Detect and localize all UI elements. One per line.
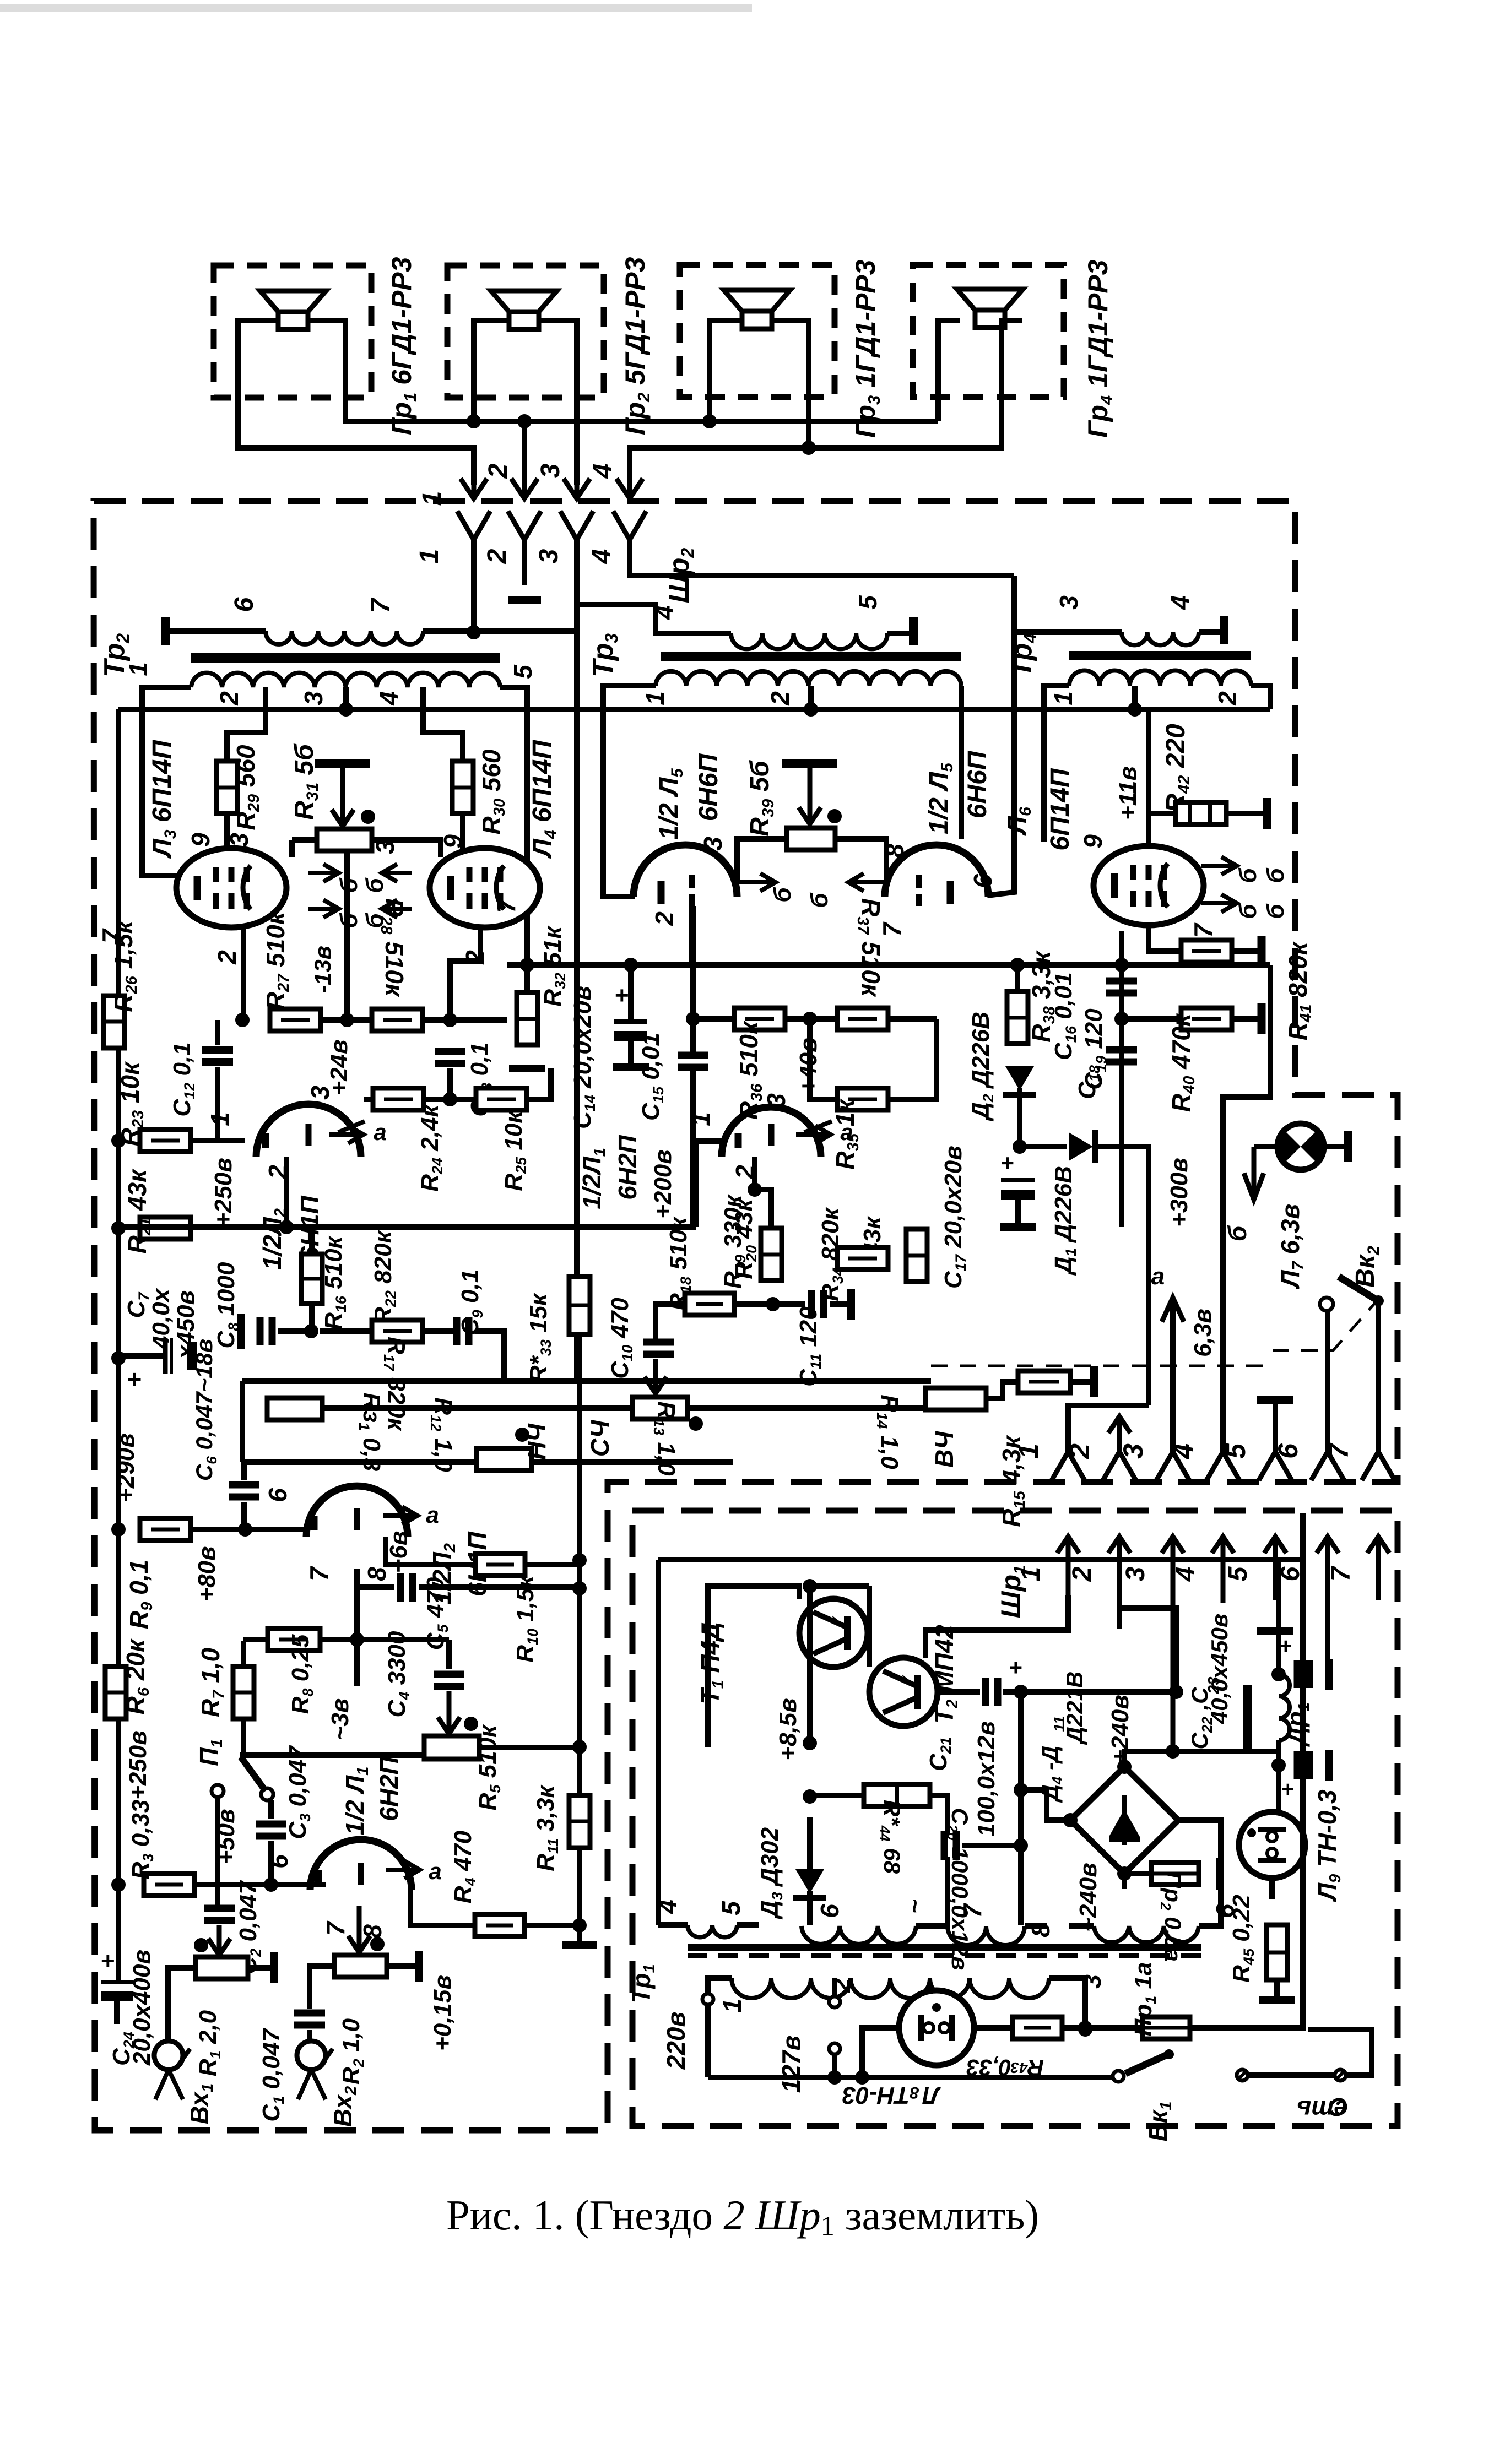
svg-text:+24в: +24в: [326, 1039, 353, 1095]
svg-text:R26 1,5к: R26 1,5к: [109, 920, 140, 1012]
svg-text:4: 4: [587, 549, 616, 565]
svg-text:6: 6: [815, 1904, 844, 1918]
svg-text:R7 1,0: R7 1,0: [196, 1648, 228, 1718]
svg-text:R25 10к: R25 10к: [500, 1110, 529, 1191]
svg-text:2: 2: [215, 691, 243, 706]
svg-text:4: 4: [650, 605, 679, 620]
svg-text:4: 4: [1171, 1567, 1200, 1582]
svg-text:б: б: [1223, 1225, 1252, 1241]
svg-text:R3 0,33: R3 0,33: [127, 1800, 156, 1880]
svg-text:127в: 127в: [777, 2036, 805, 2093]
svg-text:R32 51к: R32 51к: [539, 925, 569, 1007]
svg-text:НЧ: НЧ: [522, 1423, 551, 1460]
svg-text:5: 5: [853, 595, 882, 610]
svg-text:7: 7: [1327, 1565, 1356, 1581]
svg-text:R27 510к: R27 510к: [261, 910, 293, 1010]
svg-text:6: 6: [264, 1854, 293, 1869]
svg-text:5: 5: [717, 1901, 745, 1915]
svg-text:43: 43: [1010, 2059, 1029, 2076]
svg-text:Рис. 1. (Гнездо 2 Шр1 заземли: Рис. 1. (Гнездо 2 Шр1 заземлить): [446, 2191, 1039, 2241]
svg-text:1: 1: [1013, 1443, 1044, 1459]
svg-text:4: 4: [375, 691, 403, 706]
svg-text:40,0х450в: 40,0х450в: [1206, 1614, 1232, 1725]
svg-text:1: 1: [718, 1999, 746, 2013]
svg-text:Д3 Д302: Д3 Д302: [756, 1827, 786, 1920]
svg-text:+: +: [1000, 1150, 1014, 1176]
svg-text:1: 1: [415, 549, 444, 564]
svg-text:R19 330к: R19 330к: [719, 1193, 749, 1288]
svg-text:С4 3300: С4 3300: [383, 1631, 413, 1717]
svg-text:С16 0,01: С16 0,01: [1050, 972, 1079, 1060]
svg-text:6Н6П: 6Н6П: [694, 753, 723, 821]
svg-text:R40 470к: R40 470к: [1167, 1012, 1198, 1112]
svg-text:-13в: -13в: [310, 946, 335, 993]
svg-text:2: 2: [483, 549, 512, 564]
svg-text:R4 470: R4 470: [450, 1830, 479, 1903]
svg-text:2: 2: [1068, 1566, 1097, 1582]
svg-text:С3 0,047: С3 0,047: [284, 1745, 313, 1839]
svg-text:+: +: [127, 1365, 142, 1393]
svg-text:R12 1,0: R12 1,0: [427, 1397, 457, 1472]
svg-text:R31 5б: R31 5б: [290, 743, 322, 820]
svg-text:2: 2: [1213, 691, 1242, 706]
svg-text:б: б: [361, 877, 388, 893]
svg-text:Д1 Д226В: Д1 Д226В: [1050, 1166, 1079, 1276]
svg-text:С15 0,01: С15 0,01: [637, 1033, 667, 1121]
svg-text:6: 6: [263, 1488, 292, 1502]
svg-text:R9 0,1: R9 0,1: [124, 1560, 156, 1629]
svg-text:6Н6П: 6Н6П: [963, 750, 992, 818]
svg-text:Д4 -Д: Д4 -Д: [1037, 1746, 1065, 1803]
svg-text:2: 2: [827, 1978, 856, 1993]
svg-text:R18 510к: R18 510к: [665, 1215, 694, 1310]
svg-text:а: а: [429, 1858, 441, 1884]
svg-text:R41 820к: R41 820к: [1284, 941, 1315, 1040]
svg-text:2: 2: [484, 463, 513, 479]
svg-text:Т1 П4Д: Т1 П4Д: [696, 1622, 727, 1705]
svg-text:а: а: [426, 1502, 439, 1528]
svg-text:а: а: [373, 1119, 386, 1145]
svg-text:+11в: +11в: [1114, 766, 1141, 820]
svg-text:Гр3 1ГД1-РР3: Гр3 1ГД1-РР3: [850, 259, 884, 438]
svg-text:СЧ: СЧ: [586, 1419, 614, 1457]
svg-text:R39 5б: R39 5б: [745, 760, 777, 837]
svg-text:Д221В: Д221В: [1062, 1671, 1087, 1745]
svg-text:Гр1 6ГД1-РР3: Гр1 6ГД1-РР3: [386, 257, 420, 435]
svg-text:100,0х12в: 100,0х12в: [973, 1721, 1000, 1837]
svg-text:1: 1: [205, 1112, 234, 1126]
svg-text:1: 1: [641, 691, 669, 705]
svg-text:9: 9: [186, 833, 215, 847]
svg-text:а: а: [1151, 1263, 1165, 1290]
svg-text:7: 7: [321, 1920, 350, 1936]
svg-text:R22 820к: R22 820к: [370, 1229, 399, 1324]
svg-text:6,3в: 6,3в: [1189, 1309, 1216, 1357]
svg-text:3: 3: [699, 837, 727, 851]
svg-text:б: б: [1235, 867, 1262, 883]
svg-text:R16 510к: R16 510к: [320, 1235, 349, 1329]
svg-text:б: б: [806, 892, 833, 908]
svg-text:220в: 220в: [662, 2012, 690, 2070]
svg-text:+0,15в: +0,15в: [429, 1975, 456, 2051]
svg-text:~: ~: [901, 1899, 928, 1914]
svg-text:+250в: +250в: [210, 1158, 237, 1227]
svg-text:1: 1: [124, 662, 153, 676]
svg-text:6: 6: [230, 597, 259, 612]
svg-text:+: +: [1009, 1654, 1022, 1680]
svg-text:3: 3: [762, 1093, 791, 1108]
svg-text:+8,5в: +8,5в: [775, 1698, 802, 1760]
svg-text:+200в: +200в: [649, 1149, 676, 1219]
svg-text:R24 2,4к: R24 2,4к: [416, 1104, 446, 1192]
svg-text:+: +: [100, 1947, 115, 1974]
svg-text:б: б: [1235, 903, 1262, 919]
svg-text:С11 120: С11 120: [795, 1306, 824, 1387]
svg-text:5: 5: [508, 664, 537, 679]
svg-text:3: 3: [1078, 1974, 1106, 1989]
svg-text:3: 3: [1121, 1566, 1150, 1581]
svg-text:б: б: [1262, 903, 1289, 919]
svg-text:R42 220: R42 220: [1161, 724, 1193, 813]
svg-text:С10 470: С10 470: [607, 1298, 636, 1379]
svg-text:4: 4: [588, 464, 618, 479]
svg-text:R28 510к: R28 510к: [377, 898, 409, 998]
svg-text:R6 20к: R6 20к: [121, 1638, 153, 1714]
svg-text:2: 2: [766, 691, 794, 706]
svg-text:1/2 Л5: 1/2 Л5: [924, 762, 956, 834]
svg-text:R35 1к: R35 1к: [831, 1098, 862, 1170]
svg-text:3: 3: [1118, 1443, 1149, 1459]
svg-text:7: 7: [366, 597, 396, 613]
svg-text:Л3 6П14П: Л3 6П14П: [148, 739, 180, 859]
svg-text:~240в: ~240в: [1075, 1863, 1102, 1932]
svg-text:б: б: [769, 887, 796, 903]
svg-text:+80в: +80в: [193, 1546, 220, 1602]
svg-text:Л: Л: [922, 2082, 941, 2109]
svg-text:R11 3,3к: R11 3,3к: [532, 1784, 561, 1871]
svg-text:+290в: +290в: [112, 1433, 139, 1502]
svg-text:+300в: +300в: [1166, 1158, 1193, 1227]
svg-text:R13 1,0: R13 1,0: [651, 1401, 680, 1476]
svg-text:~3в: ~3в: [327, 1698, 354, 1741]
svg-text:4: 4: [1166, 595, 1194, 610]
svg-text:R21 43к: R21 43к: [123, 1168, 154, 1253]
svg-text:3: 3: [534, 549, 564, 563]
svg-text:R8 0,25: R8 0,25: [287, 1634, 316, 1714]
svg-text:ВЧ: ВЧ: [930, 1431, 959, 1468]
svg-text:6Н2П: 6Н2П: [375, 1756, 403, 1821]
svg-text:1/2Л1: 1/2Л1: [577, 1148, 609, 1209]
svg-text:R37 510к: R37 510к: [854, 898, 885, 998]
svg-text:Д2 Д226В: Д2 Д226В: [967, 1012, 997, 1122]
svg-text:2: 2: [650, 911, 679, 926]
svg-text:7: 7: [958, 1903, 987, 1918]
svg-text:ТН-03: ТН-03: [842, 2082, 910, 2109]
svg-text:Т2 МП42: Т2 МП42: [930, 1625, 961, 1724]
svg-text:20,0х400в: 20,0х400в: [128, 1950, 155, 2066]
svg-text:С12 0,1: С12 0,1: [169, 1042, 198, 1116]
svg-text:R23 10к: R23 10к: [116, 1061, 147, 1146]
svg-text:Пр2 0,5а: Пр2 0,5а: [1157, 1871, 1186, 1962]
svg-text:Л9 ТН-0,3: Л9 ТН-0,3: [1313, 1789, 1344, 1902]
svg-text:4: 4: [653, 1899, 682, 1914]
svg-text:+: +: [1281, 1777, 1293, 1801]
svg-text:3: 3: [299, 691, 328, 705]
svg-text:R*33 15к: R*33 15к: [525, 1292, 554, 1383]
svg-text:8: 8: [910, 2083, 919, 2102]
svg-text:R45 0,22: R45 0,22: [1228, 1895, 1257, 1983]
svg-text:9: 9: [1079, 834, 1107, 849]
svg-text:+: +: [614, 982, 629, 1009]
svg-text:С1 0,047: С1 0,047: [258, 2027, 287, 2122]
svg-text:+: +: [1279, 1634, 1291, 1658]
svg-text:С19 120: С19 120: [1080, 1008, 1109, 1090]
svg-text:R29 560: R29 560: [231, 745, 263, 830]
svg-text:8: 8: [1026, 1923, 1055, 1937]
svg-text:Rз1 0,3: Rз1 0,3: [356, 1393, 385, 1472]
svg-text:7: 7: [492, 898, 521, 913]
svg-text:6П14П: 6П14П: [1046, 768, 1075, 851]
svg-text:Гр4 1ГД1-РР3: Гр4 1ГД1-РР3: [1082, 259, 1116, 438]
svg-text:R14 1,0: R14 1,0: [874, 1394, 903, 1469]
svg-text:С9 0,1: С9 0,1: [457, 1269, 486, 1336]
svg-text:2: 2: [213, 950, 241, 965]
svg-text:3: 3: [1054, 595, 1083, 610]
svg-text:1: 1: [1049, 691, 1078, 705]
svg-text:3: 3: [536, 463, 565, 478]
svg-text:б: б: [1262, 867, 1289, 883]
svg-text:Л4 6П14П: Л4 6П14П: [528, 739, 560, 859]
svg-text:1: 1: [686, 1112, 715, 1126]
svg-text:7: 7: [1189, 922, 1217, 938]
svg-text:1/2 Л5: 1/2 Л5: [654, 768, 686, 840]
svg-text:Гр2 5ГД1-РР3: Гр2 5ГД1-РР3: [620, 257, 653, 435]
svg-text:R5 510к: R5 510к: [474, 1724, 504, 1810]
svg-text:R1 2,0: R1 2,0: [194, 2010, 224, 2076]
svg-text:7: 7: [305, 1566, 333, 1581]
svg-text:6Н2П: 6Н2П: [613, 1135, 642, 1200]
svg-text:1/2 Л1: 1/2 Л1: [340, 1767, 372, 1835]
svg-text:R2 1,0: R2 1,0: [338, 2018, 367, 2085]
svg-text:8: 8: [358, 1924, 387, 1939]
svg-text:6: 6: [968, 874, 997, 888]
svg-text:R30 560: R30 560: [477, 749, 508, 834]
svg-text:еть: еть: [1296, 2096, 1348, 2124]
svg-text:+250в: +250в: [124, 1730, 151, 1800]
svg-text:Л7 6,3в: Л7 6,3в: [1276, 1204, 1307, 1289]
svg-text:5: 5: [1224, 1566, 1253, 1581]
